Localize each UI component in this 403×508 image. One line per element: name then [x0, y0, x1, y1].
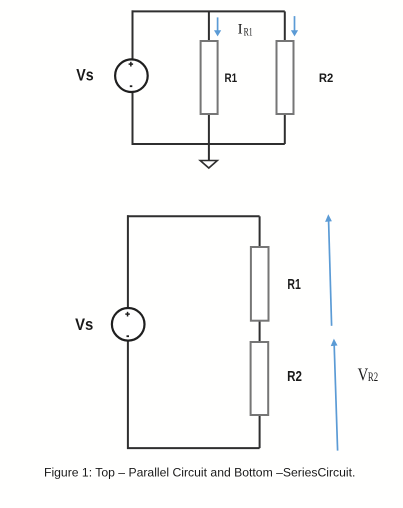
svg-text:R2: R2 — [368, 369, 378, 384]
voltage arrow lower (blue, up) — [331, 339, 338, 451]
svg-text:R1: R1 — [225, 71, 238, 85]
svg-text:R1: R1 — [287, 277, 300, 293]
svg-text:Vs: Vs — [76, 67, 93, 85]
resistor R1 (top circuit) — [201, 41, 218, 114]
label IR1 — [238, 22, 253, 39]
svg-text:Figure 1: Top – Parallel Circu: Figure 1: Top – Parallel Circuit and Bot… — [44, 465, 355, 479]
label R2 (bottom circuit) — [287, 369, 302, 385]
svg-text:R1: R1 — [244, 24, 253, 38]
caption: Figure 1 — [44, 465, 355, 479]
voltage source Vs (bottom circuit) — [112, 308, 145, 341]
resistor R2 (top circuit) — [277, 41, 294, 114]
label R1 (bottom circuit) — [287, 277, 300, 293]
wire: top circuit left vertical lower (Vs bottom to bottom wire) — [132, 92, 134, 145]
wire: bottom circuit left vertical upper (to Vs top) — [127, 215, 129, 308]
label R1 (top circuit) — [225, 71, 238, 85]
wire: bottom circuit bottom horizontal — [127, 447, 260, 449]
wire: R1 branch bottom vertical — [208, 114, 210, 144]
ground — [200, 161, 217, 169]
wire: R2 branch bottom vertical — [284, 114, 286, 144]
voltage source Vs (top circuit) — [115, 59, 148, 92]
wire: ground stem — [208, 144, 210, 161]
wire: top circuit left vertical upper (to Vs top) — [132, 10, 134, 59]
wire: R1 branch top vertical — [208, 11, 210, 41]
svg-text:R2: R2 — [287, 369, 302, 385]
wire: top circuit top horizontal — [132, 10, 285, 12]
wire: bottom circuit left vertical lower (Vs bottom to bottom wire) — [127, 341, 129, 449]
wire: R2 branch top vertical — [284, 11, 286, 41]
svg-text:R2: R2 — [319, 71, 333, 85]
resistor R2 (bottom circuit) — [251, 342, 269, 415]
voltage arrow upper (blue, up) — [325, 214, 332, 325]
resistor R1 (bottom circuit) — [251, 247, 269, 321]
label VR2 — [358, 365, 379, 385]
svg-text:I: I — [238, 22, 243, 38]
wire: between R1 and R2 — [259, 321, 261, 342]
wire: bottom circuit right vertical lower (R2 bottom to bottom wire) — [259, 415, 261, 448]
svg-text:V: V — [358, 365, 369, 385]
current arrow IR1 (blue, down) — [214, 17, 221, 36]
label Vs (bottom circuit) — [75, 316, 93, 334]
label R2 (top circuit) — [319, 71, 333, 85]
label Vs (top circuit) — [76, 67, 93, 85]
svg-text:Vs: Vs — [75, 316, 93, 334]
wire: bottom circuit right vertical upper (to R1 top) — [259, 216, 261, 247]
current arrow at R2 (blue, down) — [291, 16, 298, 36]
wire: bottom circuit top horizontal — [127, 215, 260, 217]
wire: top circuit bottom horizontal — [132, 143, 285, 145]
